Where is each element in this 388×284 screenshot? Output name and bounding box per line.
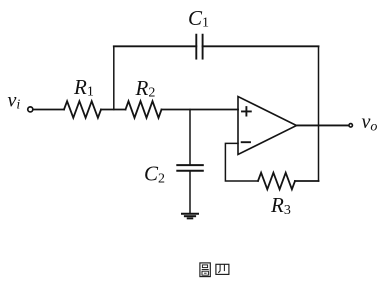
- svg-text:R3: R3: [270, 193, 291, 218]
- svg-text:C1: C1: [188, 6, 209, 31]
- svg-text:vo: vo: [362, 111, 378, 134]
- svg-text:C2: C2: [144, 161, 165, 186]
- svg-text:vi: vi: [8, 90, 21, 113]
- svg-text:R1: R1: [73, 75, 94, 100]
- svg-text:R2: R2: [135, 76, 156, 101]
